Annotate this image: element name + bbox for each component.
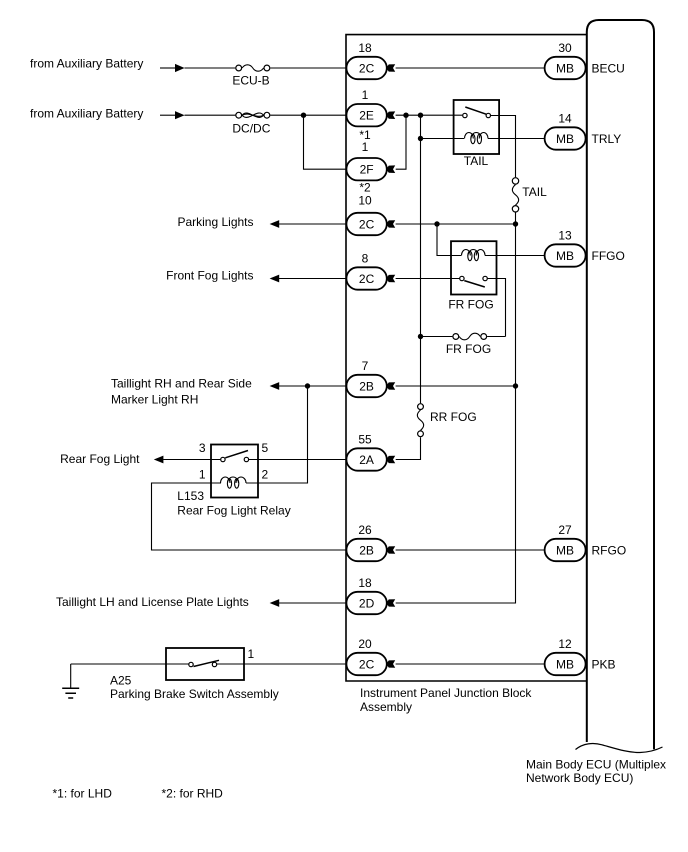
node: battery feed branch (left of 2E) bbox=[301, 113, 306, 118]
wire branch down to FR FOG coil bbox=[437, 224, 461, 256]
node: branch to FR FOG coil bbox=[434, 221, 439, 226]
switch A25 Parking Brake Switch Assembly bbox=[110, 648, 279, 701]
svg-text:A25: A25 bbox=[110, 674, 132, 688]
wire TAIL line to 2B-7 bbox=[396, 385, 516, 387]
svg-text:TRLY: TRLY bbox=[592, 132, 622, 146]
svg-text:Parking Brake Switch Assembly: Parking Brake Switch Assembly bbox=[110, 687, 279, 701]
wire L153 switch pin 3 to arrow bbox=[163, 459, 220, 461]
svg-text:MB: MB bbox=[556, 132, 574, 146]
fuse DC/DC bbox=[232, 112, 270, 135]
svg-text:1: 1 bbox=[248, 647, 255, 661]
svg-text:from Auxiliary Battery: from Auxiliary Battery bbox=[30, 107, 143, 121]
svg-text:2E: 2E bbox=[359, 109, 374, 123]
wire L153 coil pin 1 inside bbox=[211, 482, 258, 484]
svg-text:26: 26 bbox=[358, 523, 372, 537]
wire ground to A25 switch bbox=[71, 663, 189, 665]
svg-text:1: 1 bbox=[362, 88, 369, 102]
arrow right (row 1 feed) bbox=[175, 64, 185, 72]
junction block: Instrument Panel Junction Block Assembly bbox=[346, 35, 587, 714]
svg-text:2: 2 bbox=[262, 467, 269, 481]
svg-text:7: 7 bbox=[362, 359, 369, 373]
svg-text:L153: L153 bbox=[177, 489, 204, 503]
wire fuse FR FOG left lead to bus bbox=[421, 336, 453, 338]
svg-text:BECU: BECU bbox=[592, 61, 625, 75]
svg-text:18: 18 bbox=[358, 41, 372, 55]
wire MB-27 to 2B-26 bbox=[396, 549, 545, 551]
wire 2C-10 to Parking Lights arrow bbox=[279, 223, 347, 225]
arrow right (row 2 feed) bbox=[175, 111, 185, 119]
svg-text:FR FOG: FR FOG bbox=[446, 342, 491, 356]
wire FR FOG coil to MB-13 bbox=[485, 255, 545, 257]
node: TAIL line joins row 6 bbox=[513, 383, 518, 388]
arrow out to Taillight LH bbox=[270, 599, 280, 607]
wire branch down to 2F arrow bbox=[396, 115, 406, 169]
arrow into 2E bbox=[386, 111, 395, 119]
connector 2D pin 18 bbox=[346, 576, 386, 614]
wire A25 to 2C-20 bbox=[217, 663, 347, 665]
svg-text:2A: 2A bbox=[359, 453, 374, 467]
wire MB-12 to 2C-20 bbox=[396, 663, 545, 665]
wire row2 feed bbox=[160, 114, 176, 116]
arrow into 2F bbox=[386, 165, 395, 173]
svg-text:from Auxiliary Battery: from Auxiliary Battery bbox=[30, 57, 143, 71]
svg-text:MB: MB bbox=[556, 543, 574, 557]
svg-text:30: 30 bbox=[558, 41, 572, 55]
svg-text:Parking Lights: Parking Lights bbox=[177, 215, 253, 229]
svg-text:PKB: PKB bbox=[592, 657, 616, 671]
connector 2B pin 26 bbox=[346, 523, 386, 561]
svg-text:Main Body ECU (Multiplex: Main Body ECU (Multiplex bbox=[526, 758, 666, 772]
svg-text:RFGO: RFGO bbox=[592, 543, 627, 557]
wire battery bus to TAIL coil bbox=[421, 138, 465, 140]
connector 2C pin 10 bbox=[346, 194, 386, 236]
svg-text:TAIL: TAIL bbox=[522, 185, 547, 199]
node: FR FOG fuse joins battery bus bbox=[418, 334, 423, 339]
relay L153 Rear Fog Light Relay bbox=[177, 441, 290, 518]
fuse TAIL bbox=[512, 178, 547, 212]
wire row1 arrow to fuse bbox=[185, 67, 236, 69]
svg-text:MB: MB bbox=[556, 657, 574, 671]
svg-text:Instrument Panel Junction Bloc: Instrument Panel Junction Block bbox=[360, 686, 532, 700]
arrow out to Rear Fog Light bbox=[154, 456, 164, 464]
svg-text:1: 1 bbox=[362, 140, 369, 154]
wire MB-30 to 2C-18 bbox=[396, 67, 545, 69]
svg-text:*1: for LHD: *1: for LHD bbox=[53, 787, 113, 801]
svg-text:Assembly: Assembly bbox=[360, 700, 412, 714]
relay FR FOG bbox=[448, 241, 496, 311]
wire 2B-7 branch down to L153 coil pin 2 bbox=[258, 386, 307, 483]
wire RR FOG fuse to 2A bbox=[396, 437, 421, 459]
wire 2D to Taillight LH arrow bbox=[279, 602, 347, 604]
relay TAIL bbox=[454, 100, 500, 168]
connector 2C pin 20 bbox=[346, 637, 386, 675]
fuse FR FOG bbox=[446, 333, 491, 356]
connector 2B pin 7 bbox=[346, 359, 386, 397]
svg-text:12: 12 bbox=[558, 637, 572, 651]
svg-text:MB: MB bbox=[556, 249, 574, 263]
connector MB pin 27 bbox=[545, 523, 586, 561]
node: branch to rear fog relay coil bbox=[305, 383, 310, 388]
connector 2C pin 18 bbox=[346, 41, 386, 79]
svg-text:Taillight LH and License Plate: Taillight LH and License Plate Lights bbox=[56, 595, 249, 609]
wire 2B-7 to Taillight RH arrow bbox=[279, 385, 347, 387]
svg-text:20: 20 bbox=[358, 637, 372, 651]
connector 2A pin 55 bbox=[346, 433, 386, 471]
fuse ECU-B bbox=[232, 65, 269, 88]
wire branch down to 2F (left) bbox=[304, 115, 347, 169]
wire TAIL fuse down to 2D corner bbox=[396, 213, 516, 604]
svg-text:14: 14 bbox=[558, 112, 572, 126]
node: TAIL fuse line joins row 4 bbox=[513, 221, 518, 226]
svg-text:ECU-B: ECU-B bbox=[232, 74, 269, 88]
svg-text:*2: for RHD: *2: for RHD bbox=[162, 787, 224, 801]
arrow out to Front Fog Lights bbox=[270, 275, 280, 283]
svg-text:FFGO: FFGO bbox=[592, 249, 625, 263]
wire fuse FR FOG right lead bbox=[487, 336, 505, 338]
wire L153 switch pin 5 to 2A bbox=[249, 459, 347, 461]
node: branch to 2F (right) bbox=[403, 113, 408, 118]
svg-text:1: 1 bbox=[199, 467, 206, 481]
label: Taillight RH and Rear Side Marker Light RH bbox=[111, 377, 252, 407]
wire 2E to TAIL relay switch bbox=[396, 114, 463, 116]
wire TAIL coil to MB-14 bbox=[488, 138, 545, 140]
svg-text:13: 13 bbox=[558, 229, 572, 243]
arrow into 2C-10 bbox=[386, 220, 395, 228]
wire FR FOG switch out to fuse bbox=[488, 279, 506, 337]
wire fuse DC/DC to connector 2E bbox=[270, 114, 346, 116]
svg-text:RR FOG: RR FOG bbox=[430, 410, 477, 424]
svg-text:8: 8 bbox=[362, 252, 369, 266]
wire TAIL switch out to v-line bbox=[491, 116, 516, 178]
svg-text:2F: 2F bbox=[360, 163, 374, 177]
svg-text:Network Body ECU): Network Body ECU) bbox=[526, 771, 633, 785]
connector 2F bbox=[346, 158, 386, 180]
svg-text:2C: 2C bbox=[359, 217, 375, 231]
wire FR FOG switch to 2C-8 bbox=[396, 278, 460, 280]
connector MB pin 13 bbox=[545, 229, 586, 267]
arrow into 2B-26 bbox=[386, 546, 395, 554]
wire vertical battery bus x=420.5 bbox=[420, 115, 422, 403]
svg-text:Taillight RH and Rear Side: Taillight RH and Rear Side bbox=[111, 377, 252, 391]
node: TAIL coil to battery bus bbox=[418, 136, 423, 141]
wire row1 feed bbox=[160, 67, 176, 69]
svg-text:FR FOG: FR FOG bbox=[448, 298, 493, 312]
svg-text:2C: 2C bbox=[359, 657, 375, 671]
svg-text:2B: 2B bbox=[359, 543, 374, 557]
wire row2 arrow to fuse bbox=[185, 114, 236, 116]
svg-text:55: 55 bbox=[358, 433, 372, 447]
connector MB pin 14 bbox=[545, 112, 586, 150]
svg-text:Rear Fog Light: Rear Fog Light bbox=[60, 452, 140, 466]
svg-text:TAIL: TAIL bbox=[464, 154, 489, 168]
arrow into 2A bbox=[386, 456, 395, 464]
svg-text:DC/DC: DC/DC bbox=[232, 122, 270, 136]
connector 2E pin 1 bbox=[346, 88, 386, 126]
svg-text:27: 27 bbox=[558, 523, 572, 537]
node: branch to fuse ladder bbox=[418, 113, 423, 118]
fuse RR FOG bbox=[417, 404, 476, 437]
arrow into 2C-8 bbox=[386, 275, 395, 283]
connector MB pin 30 bbox=[545, 41, 586, 79]
svg-text:Marker Light RH: Marker Light RH bbox=[111, 393, 198, 407]
connector 2C pin 8 bbox=[346, 252, 386, 290]
arrow into 2C-18 bbox=[386, 64, 395, 72]
svg-text:2B: 2B bbox=[359, 379, 374, 393]
ECU block: Main Body ECU (Multiplex Network Body ECU) bbox=[526, 20, 666, 785]
arrow out to Taillight RH bbox=[270, 382, 280, 390]
arrow into 2C-20 bbox=[386, 660, 395, 668]
svg-text:10: 10 bbox=[358, 194, 372, 208]
svg-text:18: 18 bbox=[358, 576, 372, 590]
svg-text:2C: 2C bbox=[359, 61, 375, 75]
connector MB pin 12 bbox=[545, 637, 586, 675]
arrow out to Parking Lights bbox=[270, 220, 280, 228]
wire TAIL fuse output to 2C-10 bbox=[396, 223, 516, 225]
svg-text:Front Fog Lights: Front Fog Lights bbox=[166, 269, 253, 283]
svg-text:5: 5 bbox=[262, 441, 269, 455]
wire fuse ECU-B to connector 2C bbox=[270, 67, 346, 69]
wire 2C-8 to Front Fog Lights arrow bbox=[279, 278, 347, 280]
ground (parking brake switch) bbox=[62, 664, 79, 698]
arrow into 2D bbox=[386, 599, 395, 607]
svg-text:2D: 2D bbox=[359, 596, 375, 610]
svg-text:Rear Fog Light Relay: Rear Fog Light Relay bbox=[177, 504, 290, 518]
svg-text:MB: MB bbox=[556, 61, 574, 75]
wire L153 coil pin 1 down to 2B-26 bbox=[152, 483, 347, 550]
svg-text:3: 3 bbox=[199, 441, 206, 455]
svg-text:*2: *2 bbox=[359, 181, 371, 195]
arrow into 2B-7 bbox=[386, 382, 395, 390]
svg-text:2C: 2C bbox=[359, 272, 375, 286]
